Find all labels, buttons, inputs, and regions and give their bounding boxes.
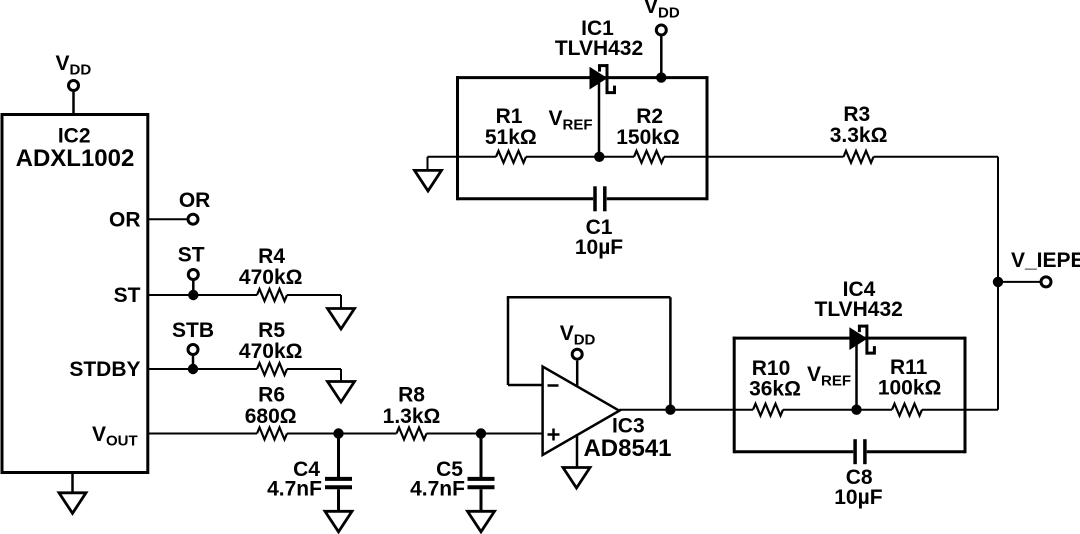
terminal STB: [172, 319, 214, 369]
VREF node wire IC4: [807, 344, 857, 410]
svg-text:R1: R1: [496, 105, 523, 128]
wire STDBY row: [148, 368, 257, 370]
wire R6 to R8: [287, 433, 397, 435]
svg-text:10µF: 10µF: [575, 236, 623, 259]
wire VOUT row: [148, 433, 257, 435]
svg-text:ADXL1002: ADXL1002: [16, 145, 135, 172]
svg-text:STB: STB: [172, 319, 214, 342]
wire R4 to ground: [287, 295, 341, 309]
ground IC1 left: [415, 170, 442, 191]
resistor R8 1.3k: [383, 384, 441, 440]
svg-text:470kΩ: 470kΩ: [239, 340, 303, 363]
wire opamp output: [619, 409, 734, 411]
resistor R5 470k: [239, 319, 303, 375]
wire ST row: [148, 294, 257, 296]
svg-text:AD8541: AD8541: [583, 435, 671, 462]
svg-text:R5: R5: [258, 319, 285, 342]
svg-text:3.3kΩ: 3.3kΩ: [830, 124, 888, 147]
resistor R2 150k: [616, 105, 680, 163]
svg-text:OR: OR: [109, 209, 141, 232]
svg-text:VDD: VDD: [644, 0, 680, 21]
junction opamp output: [665, 405, 675, 415]
svg-text:VREF: VREF: [549, 107, 593, 133]
svg-text:R2: R2: [636, 105, 663, 128]
capacitor C5 4.7nF: [410, 434, 494, 512]
ground C4: [325, 511, 352, 532]
ground R4: [328, 309, 355, 330]
resistor R11 100k: [878, 356, 942, 416]
junction STB: [188, 364, 198, 374]
VDD power terminal of IC2: [56, 52, 92, 115]
TLVH432 symbol IC1: [555, 17, 643, 94]
plus input symbol: [548, 429, 560, 441]
VDD terminal of IC1: [644, 0, 680, 78]
VDD terminal of IC3: [560, 322, 596, 386]
svg-text:V_IEPE: V_IEPE: [1011, 249, 1080, 272]
svg-text:OR: OR: [179, 189, 211, 212]
IC1 TLVH432 network box: [456, 76, 707, 200]
svg-text:TLVH432: TLVH432: [815, 298, 903, 321]
svg-text:4.7nF: 4.7nF: [410, 478, 465, 501]
resistor R4 470k: [239, 245, 303, 301]
junction VREF IC1: [594, 152, 604, 162]
wire R8 to opamp: [427, 433, 543, 435]
svg-text:470kΩ: 470kΩ: [239, 266, 303, 289]
junction C4 node: [333, 428, 343, 438]
svg-text:STDBY: STDBY: [69, 358, 140, 381]
wire IC1 mid row: [428, 157, 708, 171]
svg-text:150kΩ: 150kΩ: [616, 126, 680, 149]
wire IC4 mid row: [734, 409, 998, 411]
op-amp IC3 AD8541: [543, 367, 672, 463]
svg-text:TLVH432: TLVH432: [555, 37, 643, 60]
svg-text:R4: R4: [258, 245, 285, 268]
IC2 ADXL1002 accelerometer block: [2, 115, 148, 473]
terminal OR: [179, 189, 211, 224]
junction C5 node: [476, 428, 486, 438]
ground IC3: [563, 434, 590, 488]
capacitor C4 4.7nF: [267, 434, 352, 512]
wire R5 to ground: [287, 369, 341, 382]
svg-text:36kΩ: 36kΩ: [749, 378, 801, 401]
wire OR pin: [148, 218, 187, 220]
junction VREF IC4: [851, 405, 861, 415]
TLVH432 symbol IC4: [815, 278, 903, 355]
terminal V_IEPE: [998, 249, 1080, 287]
svg-text:VDD: VDD: [56, 52, 92, 78]
svg-text:1.3kΩ: 1.3kΩ: [383, 405, 441, 428]
feedback loop wire: [507, 297, 671, 409]
resistor R1 51k: [485, 105, 537, 163]
ground R5: [328, 382, 355, 403]
VREF node wire IC1: [549, 83, 600, 157]
svg-text:R3: R3: [843, 103, 870, 126]
junction VDD IC1: [656, 72, 666, 82]
capacitor C8 10uF: [834, 439, 882, 509]
svg-text:ST: ST: [178, 244, 205, 267]
svg-text:R6: R6: [258, 384, 285, 407]
terminal ST: [178, 244, 205, 296]
junction ST: [188, 290, 198, 300]
junction V_IEPE: [993, 277, 1003, 287]
capacitor C1 10uF: [575, 186, 623, 259]
IC4 TLVH432 network box: [733, 337, 965, 454]
ground at IC2 bottom: [59, 473, 86, 514]
svg-text:VREF: VREF: [807, 363, 851, 389]
wire R3 to V_IEPE corner: [874, 157, 999, 410]
wire IC1 to R3: [707, 156, 844, 158]
svg-text:4.7nF: 4.7nF: [267, 478, 322, 501]
svg-text:VDD: VDD: [560, 322, 596, 348]
minus input symbol: [548, 384, 559, 387]
svg-text:680Ω: 680Ω: [245, 405, 297, 428]
svg-text:10µF: 10µF: [834, 486, 882, 509]
resistor R3 3.3k: [830, 103, 888, 163]
svg-text:ST: ST: [114, 284, 141, 307]
ground C5: [468, 511, 495, 532]
svg-text:51kΩ: 51kΩ: [485, 126, 537, 149]
svg-text:R8: R8: [398, 384, 425, 407]
svg-text:100kΩ: 100kΩ: [878, 377, 942, 400]
resistor R6 680: [245, 384, 297, 440]
resistor R10 36k: [749, 357, 801, 416]
